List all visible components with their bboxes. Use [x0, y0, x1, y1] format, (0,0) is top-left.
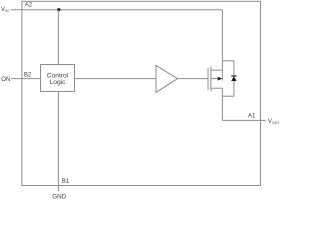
label Control Logic — [47, 72, 69, 86]
transistor Q1 drain stub — [211, 87, 223, 89]
svg-text:VIN: VIN — [1, 7, 9, 13]
svg-text:A1: A1 — [248, 114, 256, 120]
wire VIN rail down to source node — [221, 10, 223, 81]
IC outline box — [22, 1, 261, 185]
wire drain node down — [221, 88, 223, 120]
wire VIN rail — [11, 9, 223, 11]
wire source node to body diode top — [222, 60, 234, 62]
wire junction to control logic — [57, 10, 59, 65]
svg-text:VOUT: VOUT — [268, 119, 280, 125]
wire body diode branch — [233, 61, 235, 96]
svg-text:A2: A2 — [25, 2, 33, 8]
wire output to VOUT — [222, 119, 265, 121]
control logic U1 — [41, 65, 75, 92]
wire drain node to body diode bottom — [222, 95, 234, 97]
transistor Q1 source stub — [211, 69, 223, 71]
wire control logic to GND — [57, 92, 59, 192]
body diode D1 anode triangle — [231, 76, 236, 81]
wire driver to gate — [178, 78, 208, 80]
driver buffer U2 — [156, 65, 178, 92]
svg-text:Logic: Logic — [50, 79, 66, 86]
svg-text:B1: B1 — [62, 179, 70, 185]
transistor Q1 body stub with arrow — [211, 77, 223, 81]
node junction on VIN rail — [57, 8, 60, 11]
svg-text:ON: ON — [1, 77, 10, 83]
body diode D1 cathode bar — [231, 75, 236, 77]
svg-text:GND: GND — [52, 193, 66, 200]
transistor Q1 channel bar — [210, 67, 212, 92]
svg-text:B2: B2 — [24, 73, 32, 79]
wire control logic to driver — [75, 78, 157, 80]
transistor Q1 gate bar — [207, 68, 209, 90]
wire ON input — [11, 78, 41, 80]
